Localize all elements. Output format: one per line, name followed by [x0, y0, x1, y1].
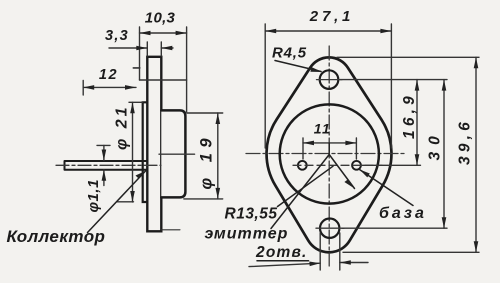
center arrow head: [344, 179, 354, 188]
svg-text:R4,5: R4,5: [272, 45, 307, 62]
svg-text:30: 30: [427, 129, 444, 160]
base pin hole: [352, 161, 361, 170]
svg-text:эмиттер: эмиттер: [205, 226, 289, 243]
right extension lines: [337, 57, 479, 252]
arrow 3,3 right: [161, 46, 172, 51]
top hole tick: [317, 79, 343, 81]
R4,5 arrow: [310, 67, 322, 72]
bottom hole tick: [316, 227, 344, 229]
2 holes verticals: [320, 233, 340, 270]
stub line under can: [162, 229, 181, 231]
arrow 30 bottom: [442, 217, 447, 228]
svg-text:φ1,1: φ1,1: [85, 179, 102, 212]
svg-text:39,6: 39,6: [457, 118, 474, 165]
arrow 27,1 left: [265, 29, 276, 34]
svg-text:12: 12: [99, 67, 118, 83]
dim line 10,3: [140, 32, 187, 34]
2otv underline: [257, 260, 309, 262]
svg-text:φ 19: φ 19: [198, 133, 216, 190]
emitter pin hole: [298, 161, 307, 170]
svg-text:Коллектор: Коллектор: [7, 227, 106, 246]
base leader arrow: [360, 170, 370, 178]
extension lines 3,3: [147, 42, 161, 56]
emitter leader: [271, 155, 329, 229]
arrow 12 right: [125, 85, 136, 90]
flange plate side view: [147, 57, 161, 232]
svg-text:база: база: [379, 205, 427, 222]
11 extension lines: [303, 138, 356, 159]
dim line 11: [303, 142, 356, 144]
arrow dia1,1 bottom: [102, 170, 107, 181]
arrow 39,6 top: [474, 57, 479, 68]
dia1,1 tick: [97, 144, 110, 146]
boss on mounting face: [143, 102, 148, 202]
dia19 extension lines: [184, 113, 223, 199]
extension lines 27,1: [265, 24, 391, 148]
arrow dia21 top: [130, 102, 135, 113]
arrow dia19 bottom: [216, 188, 221, 199]
arrow 39,6 bottom: [474, 241, 479, 252]
arrow 2otv right: [340, 260, 351, 265]
collector leader arrow: [136, 171, 146, 179]
tick on extension line: [133, 67, 140, 69]
R4,5 leader: [275, 61, 321, 72]
pin centerline: [56, 164, 161, 166]
arrow 11 left: [303, 141, 314, 146]
bottom mounting hole: [320, 219, 339, 238]
svg-text:R13,55: R13,55: [225, 206, 278, 223]
arrow dia19 top: [216, 113, 221, 124]
arrow 11 right: [345, 141, 356, 146]
horizontal centerline: [246, 153, 406, 155]
extension line 12: [82, 81, 84, 96]
arrow 16,9 bottom: [415, 154, 420, 165]
svg-text:16,9: 16,9: [401, 92, 418, 139]
svg-text:2отв.: 2отв.: [255, 244, 308, 261]
can body side view: [161, 110, 185, 197]
collector pin: [65, 161, 148, 170]
top mounting hole: [320, 70, 339, 89]
arrow 10,3 right: [176, 31, 187, 36]
flange outline: [267, 57, 392, 252]
arrow 16,9 top: [415, 80, 420, 91]
dia21 dim line: [132, 102, 134, 202]
dim line 39,6: [475, 57, 477, 252]
dim line 30: [443, 80, 445, 229]
extension line 10,3 right: [186, 27, 188, 112]
dia19 dim line: [217, 113, 219, 199]
dim line 16,9: [416, 80, 418, 166]
arrow 30 top: [442, 80, 447, 91]
collector leader: [88, 171, 146, 233]
svg-text:27,1: 27,1: [309, 8, 354, 25]
reference line over can: [140, 79, 187, 81]
2 holes dim tails: [249, 263, 368, 267]
dim 3,3 tails: [109, 47, 173, 49]
arrow dia1,1 top: [102, 150, 107, 161]
arrow dia21 bottom: [130, 191, 135, 202]
vertical centerline: [328, 46, 330, 266]
center arrow line: [329, 155, 354, 189]
svg-text:11: 11: [314, 121, 332, 137]
R13,55 leader: [278, 166, 334, 206]
arrow 2otv left: [309, 262, 320, 267]
arrow 3,3 left: [136, 46, 147, 51]
dia21 stubs: [117, 102, 143, 202]
svg-text:10,3: 10,3: [145, 10, 176, 27]
svg-text:3,3: 3,3: [105, 28, 129, 44]
dim line 27,1: [265, 30, 391, 32]
dia1,1 dim segments: [103, 145, 105, 185]
can circle: [280, 104, 379, 203]
pin hole dashed line: [293, 164, 382, 166]
arrow 12 left: [83, 85, 94, 90]
base leader: [360, 170, 414, 206]
svg-text:φ 21: φ 21: [114, 105, 131, 151]
can centerline: [159, 153, 195, 155]
dim line 12: [83, 86, 136, 88]
dim 11 midpoint stem: [328, 143, 330, 155]
arrow 10,3 left: [140, 31, 151, 36]
arrow 27,1 right: [380, 29, 391, 34]
extension line 10,3 left: [139, 27, 141, 80]
